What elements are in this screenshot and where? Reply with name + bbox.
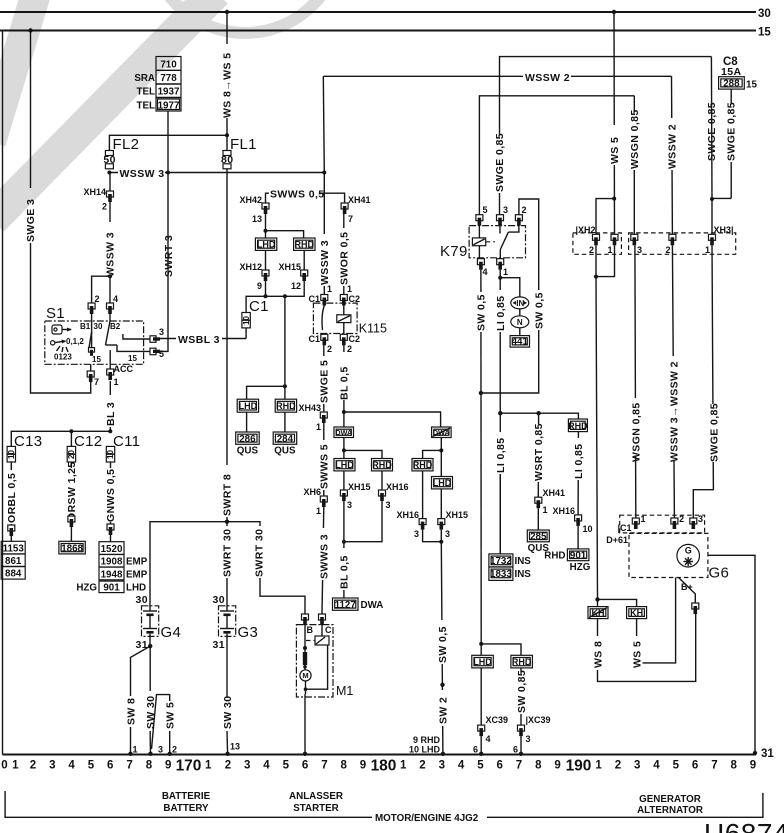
wire WS 5 from line30 — [613, 12, 616, 234]
svg-text:SWGE 0,85: SWGE 0,85 — [494, 133, 506, 192]
wire B+ main — [637, 578, 676, 663]
connector C12 — [67, 446, 76, 462]
symbol IN — [511, 297, 529, 309]
wire G3 to ruler — [226, 731, 229, 754]
box RHD (top mid) — [294, 238, 315, 250]
wire GNWS 0,5 — [110, 462, 112, 524]
svg-text:SWOR 0,5: SWOR 0,5 — [339, 232, 351, 285]
label SW 5 — [165, 702, 177, 729]
scale ruler line — [3, 754, 757, 756]
svg-text:9: 9 — [554, 760, 560, 772]
label WSSW 2 — [523, 70, 571, 82]
wire SWRT3 from WSSW3 line to S1 terminal 5 — [158, 173, 168, 352]
label SWRT 30 (M1 branch) — [254, 526, 265, 578]
wire BL 0,5 from K115 C2 down — [343, 345, 345, 427]
node down-branch — [283, 294, 287, 298]
alternator G6 body — [629, 533, 729, 581]
connector XH15 — [301, 270, 308, 281]
connector XH16 (DWA1) — [379, 490, 386, 501]
svg-text:8: 8 — [146, 760, 153, 772]
svg-text:RHD: RHD — [568, 421, 588, 431]
box LHD (DWA2) — [432, 477, 453, 489]
svg-text:D+61: D+61 — [606, 535, 628, 545]
node WSSW3/vertical junction — [322, 171, 326, 175]
connector XH3 pin1 — [709, 234, 716, 245]
box 441 — [510, 336, 529, 348]
symbol N — [511, 316, 529, 328]
box RHD (DWA1) — [372, 459, 393, 471]
svg-text:BL 0,5: BL 0,5 — [339, 366, 351, 400]
svg-text:2: 2 — [102, 202, 107, 212]
wire C1 to WSBL — [245, 328, 247, 339]
wire to 901 — [577, 526, 579, 549]
connector XH42 — [262, 203, 269, 214]
wire FL1 from line30 to fuse — [226, 12, 228, 151]
wire SW 8 diagonal+down — [131, 646, 151, 696]
svg-text:2: 2 — [419, 760, 425, 772]
wire link 95.8 (K79 pin5 / WSGN) — [479, 96, 634, 215]
wire B+ stub kite — [679, 578, 696, 604]
connector XH15 (DWA2) — [438, 519, 445, 530]
svg-text:B: B — [307, 625, 314, 635]
svg-text:XC39: XC39 — [486, 715, 509, 725]
svg-text:SWGE 5: SWGE 5 — [319, 360, 331, 403]
label WS 8-WS 5 — [220, 44, 232, 118]
svg-text:6: 6 — [513, 745, 518, 755]
svg-text:30: 30 — [758, 8, 771, 20]
connector K115 C2 bottom — [340, 334, 347, 345]
label WSSW 3-WSSW 2 — [668, 356, 679, 460]
svg-text:WSGN 0,85: WSGN 0,85 — [630, 402, 642, 462]
wire to RHD mid — [344, 450, 382, 458]
node on line 30 at x614 (WS5 feed) — [612, 10, 616, 14]
svg-text:3: 3 — [698, 514, 703, 524]
svg-text:180: 180 — [371, 758, 397, 775]
svg-text:M1: M1 — [336, 684, 353, 698]
label WS 8 (KH) — [593, 636, 604, 670]
connector K79 pin2 — [515, 215, 522, 226]
wire SW 30 G3 — [226, 646, 228, 698]
svg-text:7: 7 — [348, 214, 353, 224]
svg-text:2: 2 — [522, 205, 527, 215]
svg-text:2: 2 — [679, 514, 684, 524]
node G3 ruler — [225, 752, 229, 756]
wire WS5 branch to XH2 pin2 — [596, 199, 614, 235]
wire DWA2 down — [440, 438, 442, 477]
svg-text:FL2: FL2 — [113, 136, 140, 153]
svg-text:SW 0,5: SW 0,5 — [534, 292, 546, 329]
svg-text:10: 10 — [242, 316, 251, 325]
connector XH43 — [320, 412, 327, 423]
svg-text:1: 1 — [705, 245, 710, 255]
wire K79 pin4 SW 0,5 down — [480, 270, 482, 644]
node SWRT3 tap — [166, 171, 170, 175]
wire DWA1 down — [343, 438, 345, 459]
svg-text:XH15: XH15 — [446, 510, 469, 520]
svg-text:C13: C13 — [14, 433, 42, 450]
ruler numbers decade 170 — [205, 760, 366, 772]
svg-text:BATTERY: BATTERY — [163, 803, 209, 814]
connector above 1868 — [68, 516, 75, 527]
svg-text:9: 9 — [165, 760, 171, 772]
connector M1 C — [319, 614, 326, 625]
watermark band A — [0, 0, 37, 142]
relay K79 — [440, 222, 526, 260]
watermark overlay — [0, 0, 341, 220]
label SW 0,85 — [516, 672, 527, 714]
label WSSW 3 (K115 feed) — [319, 234, 330, 286]
wire battery header — [150, 522, 305, 614]
node FL2 bottom — [107, 171, 111, 175]
svg-text:LI 0,85: LI 0,85 — [573, 444, 585, 479]
label WSBL 3 — [176, 333, 222, 345]
wire SWGE to G6 pin3 — [693, 245, 713, 518]
svg-text:1520: 1520 — [101, 544, 123, 555]
svg-text:5: 5 — [483, 205, 488, 215]
wire top link 56.6 (C8/K79 pin3) — [500, 57, 712, 215]
svg-text:1: 1 — [327, 284, 332, 294]
svg-text:1: 1 — [133, 745, 138, 755]
wire SWOR 0,5 XH41 to K115 C2 — [343, 214, 345, 295]
label SWOR 0,5 — [339, 228, 350, 286]
svg-text:INS: INS — [515, 556, 532, 567]
box stack 710/778/1937/1977 — [134, 57, 181, 112]
svg-text:K115: K115 — [359, 322, 387, 336]
svg-text:6: 6 — [496, 760, 502, 772]
node XH12 — [264, 294, 268, 298]
svg-text:B2: B2 — [110, 322, 121, 331]
box RHD (DWA2) — [412, 459, 433, 471]
label SW 0,5 (pin4) — [476, 292, 487, 332]
connector XH41 lower — [535, 497, 542, 508]
svg-text:SWWS 0,5: SWWS 0,5 — [270, 189, 325, 201]
node splice SW2 — [440, 683, 444, 687]
box DWA 2 crossed — [432, 427, 452, 438]
svg-text:C1: C1 — [308, 334, 320, 344]
connector S1 terminal 2 — [88, 303, 95, 314]
svg-text:XH6: XH6 — [303, 487, 321, 497]
label WSRT 0,85 — [533, 424, 544, 482]
wire XH16 down to merge2 — [423, 530, 442, 542]
svg-text:LHD: LHD — [257, 240, 276, 250]
svg-text:2: 2 — [589, 245, 594, 255]
wire WSGN to G6 pin1 — [634, 245, 637, 518]
wire SW30 to ruler — [149, 731, 151, 754]
wire to LHD xc39 — [480, 644, 482, 655]
node M1 ruler — [303, 752, 307, 756]
svg-text:LHD: LHD — [335, 460, 354, 470]
svg-text:SW 2: SW 2 — [437, 697, 449, 724]
wire terminal2 into S1 — [91, 314, 93, 347]
node DWA split — [342, 410, 346, 414]
svg-text:15: 15 — [758, 27, 771, 39]
svg-text:SWRT 30: SWRT 30 — [254, 529, 266, 577]
box RHD (xc39) — [511, 655, 533, 668]
svg-text:7: 7 — [516, 760, 522, 772]
svg-text:SWGE 0,85: SWGE 0,85 — [708, 403, 720, 462]
svg-text:MOTOR/ENGINE 4JG2: MOTOR/ENGINE 4JG2 — [375, 813, 479, 824]
node merge2 — [439, 540, 443, 544]
svg-text:3: 3 — [244, 760, 250, 772]
svg-text:8: 8 — [535, 760, 542, 772]
wire WSSW 3 horizontal — [109, 172, 324, 174]
svg-text:C12: C12 — [74, 433, 102, 450]
wire ORBL 0,5 — [10, 462, 12, 525]
svg-text:IN: IN — [516, 299, 524, 308]
wire LHD to XH15 — [343, 471, 345, 490]
box RHD (instr) — [568, 419, 588, 432]
svg-text:30: 30 — [94, 322, 103, 331]
svg-text:5: 5 — [477, 760, 484, 772]
connector S1 terminal 1 — [107, 369, 114, 380]
svg-text:RHD: RHD — [512, 657, 532, 667]
svg-text:12: 12 — [291, 281, 301, 291]
svg-text:1948: 1948 — [101, 569, 123, 580]
wire branch to IN/N/441 — [500, 278, 520, 298]
connector XH41 — [341, 203, 348, 214]
wire XH15 down to merge — [343, 501, 345, 598]
wire SWGE 5 column — [323, 345, 325, 412]
wire WS 8 — [598, 614, 696, 681]
wire G6 to terminal 31 — [708, 555, 755, 753]
label WSSW 2 vertical — [667, 118, 678, 170]
svg-text:WS 5: WS 5 — [609, 137, 621, 164]
node KH junction — [595, 597, 599, 601]
svg-text:0: 0 — [1, 760, 7, 772]
connector XH3 pin3 — [631, 234, 638, 245]
svg-text:4: 4 — [483, 267, 488, 277]
svg-text:6: 6 — [302, 760, 308, 772]
svg-text:ORBL 0,5: ORBL 0,5 — [6, 473, 18, 523]
label BL 3 — [105, 395, 116, 427]
wire C1 header — [246, 281, 304, 313]
connector C1 — [242, 313, 251, 328]
wire branch to KH2 — [598, 599, 637, 606]
svg-text:HZG: HZG — [570, 562, 591, 573]
wire XH15 down to merge2 — [440, 530, 442, 542]
svg-text:S1: S1 — [46, 305, 65, 322]
svg-text:EMP: EMP — [126, 557, 148, 568]
node C12 tap — [69, 429, 73, 433]
svg-text:3: 3 — [445, 529, 450, 539]
svg-text:WSGN 0,85: WSGN 0,85 — [629, 109, 641, 169]
wire LI 0,85 RHD down — [577, 432, 579, 515]
svg-text:1977: 1977 — [158, 100, 180, 111]
svg-text:BATTERIE: BATTERIE — [162, 791, 211, 802]
svg-text:1937: 1937 — [158, 87, 180, 98]
connector XH14 — [107, 191, 114, 202]
wire SW 30 G4 — [149, 646, 151, 691]
node on line 30 at x227 (FL1 feed) — [225, 10, 229, 14]
svg-text:GENERATOR: GENERATOR — [639, 794, 701, 805]
svg-text:GNWS 0,5: GNWS 0,5 — [105, 469, 117, 522]
svg-text:WSSW 3: WSSW 3 — [319, 240, 331, 285]
svg-text:WSSW 3: WSSW 3 — [120, 168, 165, 180]
wire XH2 pins merge — [596, 245, 615, 276]
connector XH16 (DWA2) — [419, 519, 426, 530]
relay K115 — [313, 303, 387, 335]
svg-text:20: 20 — [67, 450, 76, 459]
svg-text:1: 1 — [347, 284, 352, 294]
svg-text:10 LHD: 10 LHD — [409, 745, 441, 755]
box KH crossed — [588, 607, 608, 619]
label SW 2 — [437, 690, 448, 726]
svg-text:SW 0,5: SW 0,5 — [437, 626, 449, 663]
svg-text:XH15: XH15 — [278, 262, 301, 272]
wire K79 pin2 loop to SW 0,5 — [481, 199, 539, 393]
svg-text:XH16: XH16 — [552, 506, 575, 516]
label BL 0,5 upper — [339, 352, 350, 400]
wire LHD2 to XH15 — [440, 489, 442, 519]
svg-text:30: 30 — [213, 594, 225, 606]
svg-text:1: 1 — [503, 267, 508, 277]
ignition switch S1 — [45, 305, 150, 364]
svg-text:ALTERNATOR: ALTERNATOR — [637, 805, 703, 816]
engine bracket right — [487, 793, 763, 817]
connector K115 C2 top — [340, 295, 347, 306]
wire to RHD box — [266, 231, 304, 238]
bracket wire SWWS 0,5 XH42-XH41 — [266, 193, 345, 206]
wire into 1868 — [70, 527, 72, 541]
svg-text:TEL: TEL — [136, 100, 155, 111]
svg-text:C2: C2 — [349, 334, 361, 344]
svg-text:WS 8: WS 8 — [593, 641, 605, 668]
label SWGE 0,85 (K79 pin3) — [494, 135, 505, 193]
svg-text:C: C — [325, 625, 332, 635]
wire WSBL 3 — [158, 338, 246, 340]
svg-text:SWWS 3: SWWS 3 — [318, 534, 330, 579]
wire LHD to XH12 — [265, 250, 267, 270]
svg-text:0,1,2: 0,1,2 — [66, 337, 84, 346]
svg-text:3: 3 — [503, 205, 508, 215]
node lower split — [283, 384, 287, 388]
ruler numbers decade 160 — [1, 760, 171, 772]
svg-text:1: 1 — [543, 505, 548, 515]
bus line 15 — [0, 30, 756, 32]
node SW8 ruler — [128, 752, 132, 756]
wire WSSW 2 drop — [671, 76, 674, 234]
svg-text:4: 4 — [653, 760, 660, 772]
label WS 5 — [609, 125, 620, 165]
box 285 QUS — [527, 530, 549, 554]
svg-text:7: 7 — [94, 377, 99, 387]
svg-text:XH41: XH41 — [348, 195, 371, 205]
svg-text:XH12: XH12 — [239, 262, 262, 272]
wire SWWS 5 — [323, 423, 325, 496]
svg-text:G6: G6 — [709, 565, 730, 582]
wire RHD2 to XH16 — [422, 471, 424, 519]
box 284 QUS — [273, 432, 297, 457]
wire SWWS 3 to M1 C — [322, 507, 324, 614]
svg-text:BL 3: BL 3 — [105, 402, 117, 426]
svg-text:15: 15 — [92, 355, 101, 364]
node C11 — [108, 429, 112, 433]
wire WSGN 0,85 drop — [633, 96, 635, 235]
node SWGE join — [710, 197, 714, 201]
watermark ring O — [149, 0, 341, 33]
wire XC39 right to ruler — [520, 736, 522, 754]
wire K79 pin1 LI 0,85 — [499, 270, 501, 554]
svg-text:8: 8 — [730, 760, 737, 772]
svg-text:901: 901 — [103, 583, 120, 594]
svg-text:778: 778 — [160, 73, 177, 84]
label SWGE 3 — [25, 188, 36, 243]
wire 711 down — [710, 57, 713, 199]
box RHD (C1 group) — [275, 399, 296, 412]
wire to RHD xc39 — [481, 644, 521, 655]
connector S1 terminal 3 — [150, 336, 160, 343]
wire WSSW to G6 pin2 — [672, 245, 674, 518]
label SWGE 5 — [319, 356, 330, 404]
ruler numbers decade 180 — [400, 760, 561, 772]
svg-text:4: 4 — [263, 760, 270, 772]
bus line 30 — [0, 11, 756, 13]
left border wire — [2, 31, 4, 755]
svg-text:DWA: DWA — [335, 428, 352, 437]
node pin4/loop join — [479, 391, 483, 395]
label SW 8 — [125, 698, 137, 725]
svg-text:DWA: DWA — [361, 600, 384, 611]
svg-text:2: 2 — [615, 760, 621, 772]
battery G3 — [219, 600, 259, 646]
wire N to 441 — [519, 328, 521, 336]
connector XH6 — [320, 496, 327, 507]
node WS5 split — [612, 197, 616, 201]
label LI 0,85 (upper) — [495, 290, 506, 332]
connector XC39 left — [478, 725, 485, 736]
svg-text:KH: KH — [630, 608, 643, 618]
label WSSW 3 vertical — [105, 222, 116, 278]
wire XH42 down — [265, 214, 267, 238]
label SWRT 8 — [222, 465, 233, 517]
svg-text:ORSW 1,25: ORSW 1,25 — [66, 461, 78, 521]
svg-text:QUS: QUS — [237, 446, 259, 457]
wire SWGE 3 from line15 down — [31, 31, 91, 394]
svg-text:190: 190 — [566, 758, 592, 775]
connector XH2 pin1 — [611, 234, 618, 245]
node SW5 ruler — [168, 752, 172, 756]
connector G6 pin2 — [671, 518, 678, 529]
svg-text:WSSW 3: WSSW 3 — [105, 232, 117, 277]
svg-text:SWWS 5: SWWS 5 — [319, 444, 331, 489]
svg-text:9: 9 — [257, 281, 262, 291]
svg-text:3: 3 — [158, 745, 163, 755]
svg-text:9: 9 — [750, 760, 756, 772]
connector XH16 instr — [575, 515, 582, 526]
svg-text:SWRT 30: SWRT 30 — [222, 529, 234, 577]
svg-text:3: 3 — [49, 760, 55, 772]
svg-text:|XC39: |XC39 — [526, 715, 551, 725]
svg-text:SWRT 8: SWRT 8 — [222, 474, 234, 516]
svg-text:1833: 1833 — [490, 569, 512, 580]
svg-text:4: 4 — [486, 734, 491, 744]
svg-text:RHD: RHD — [544, 551, 565, 562]
node XH2 merge — [594, 275, 598, 279]
svg-text:ACC: ACC — [114, 364, 134, 374]
wire WSSW 2 horizontal — [323, 75, 671, 77]
wire SW 0,5 down — [441, 542, 443, 754]
label SWGE 0,85 (G6) — [708, 404, 719, 462]
svg-text:WS 5: WS 5 — [632, 641, 644, 668]
wire from 710-box down to WSSW3 line — [167, 111, 169, 173]
svg-text:4: 4 — [68, 760, 75, 772]
svg-text:0123: 0123 — [54, 353, 72, 362]
svg-text:10: 10 — [583, 524, 593, 534]
svg-text:XH41: XH41 — [543, 488, 566, 498]
label LI 0,85 (lower) — [495, 432, 506, 474]
svg-text:441: 441 — [512, 337, 529, 348]
svg-text:RHD: RHD — [413, 460, 433, 470]
